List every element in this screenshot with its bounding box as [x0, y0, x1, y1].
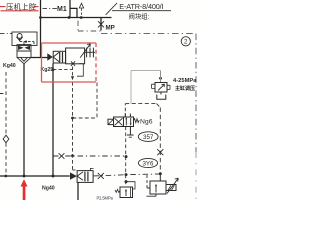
- svg-text:Kg25: Kg25: [41, 67, 54, 73]
- svg-text:357: 357: [143, 134, 154, 141]
- svg-text:Ng40: Ng40: [42, 185, 55, 191]
- svg-text:压机上腔: 压机上腔: [6, 2, 37, 11]
- svg-text:P2.5MPa: P2.5MPa: [97, 195, 114, 200]
- svg-text:3Y6: 3Y6: [142, 160, 154, 167]
- svg-text:MP: MP: [106, 24, 115, 31]
- svg-text:阀块组:: 阀块组:: [129, 12, 150, 21]
- svg-text:主缸调压: 主缸调压: [175, 85, 195, 92]
- svg-text:E-ATR-8/400/I: E-ATR-8/400/I: [119, 2, 163, 11]
- svg-text:M1: M1: [57, 6, 67, 13]
- svg-text:Kg40: Kg40: [3, 63, 16, 69]
- svg-text:4-25MPa: 4-25MPa: [173, 78, 197, 84]
- svg-text:2: 2: [184, 39, 188, 46]
- svg-text:Ng6: Ng6: [140, 119, 153, 126]
